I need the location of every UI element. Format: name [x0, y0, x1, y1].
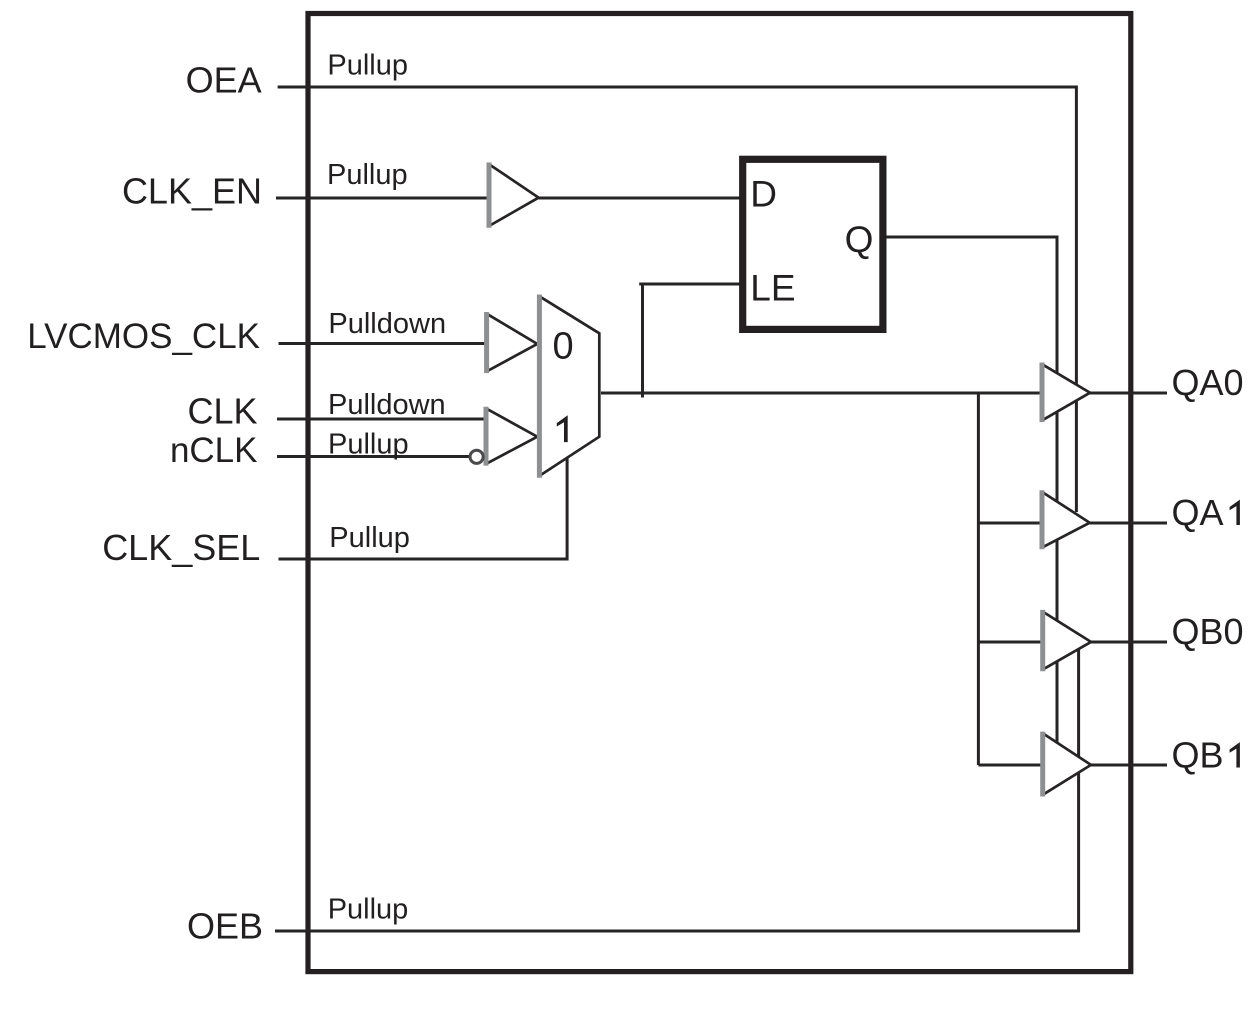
- wire LVCMOS_CLK input stub: [279, 342, 487, 345]
- wire QA1 input stub: [978, 522, 1042, 525]
- buffer CLK_EN input buffer: [489, 163, 539, 228]
- mux input label 1: [557, 415, 568, 442]
- wire latch Q net: right then down through output buffers: [883, 237, 1057, 757]
- svg-text:D: D: [750, 173, 777, 214]
- svg-text:Pulldown: Pulldown: [328, 308, 446, 340]
- wire QB0 input stub: [978, 641, 1043, 644]
- buffer LVCMOS_CLK input buffer: [487, 312, 538, 373]
- buffer QA0 output buffer: [1042, 363, 1090, 423]
- wire OEA net: stub, horizontal run, vertical drop to QA1 enable: [278, 87, 1077, 512]
- wire QA1 output: [1090, 522, 1167, 525]
- svg-text:OEA: OEA: [186, 59, 262, 100]
- buffer QB0 output buffer: [1043, 610, 1091, 671]
- wire QB1 input stub: [978, 764, 1043, 767]
- svg-text:QB: QB: [1172, 735, 1224, 776]
- svg-text:Pulldown: Pulldown: [328, 389, 446, 421]
- wire mux output main clock line to QA0: [601, 392, 1041, 395]
- wire QA0 output: [1090, 392, 1167, 395]
- buffer QB1 output buffer: [1043, 732, 1091, 797]
- svg-text:CLK_SEL: CLK_SEL: [102, 527, 260, 568]
- latch U1 (D / LE / Q): [743, 159, 883, 329]
- wire clock bus vertical: [977, 393, 980, 765]
- wire CLK_EN input stub: [276, 197, 489, 200]
- svg-text:nCLK: nCLK: [170, 431, 258, 470]
- wire CLK input stub: [277, 418, 486, 421]
- svg-text:Pullup: Pullup: [328, 429, 409, 461]
- svg-text:CLK_EN: CLK_EN: [122, 170, 262, 211]
- wire CLK_SEL net: stub and rise to mux select: [279, 458, 568, 559]
- buffer CLK/nCLK differential input buffer: [486, 407, 537, 466]
- wire OEB net: stub, horizontal run, vertical rise to QB0 enable: [275, 638, 1079, 931]
- svg-text:QB0: QB0: [1172, 611, 1244, 652]
- wire CLK_EN buffer output to latch D: [539, 197, 742, 200]
- svg-text:LE: LE: [750, 268, 795, 309]
- outer block boundary: [308, 14, 1131, 972]
- svg-text:Pullup: Pullup: [327, 50, 408, 82]
- svg-text:QA0: QA0: [1172, 362, 1244, 403]
- wire QB0 output: [1091, 641, 1167, 644]
- svg-text:0: 0: [553, 325, 574, 367]
- svg-text:CLK: CLK: [187, 391, 257, 432]
- svg-text:QA: QA: [1172, 492, 1224, 533]
- buffer QA1 output buffer: [1042, 490, 1090, 549]
- mux M1 clock select: [539, 295, 599, 478]
- svg-text:OEB: OEB: [187, 906, 263, 947]
- inversion bubble on nCLK input: [470, 450, 483, 463]
- wire LE branch from clock line up to latch LE: [639, 284, 742, 398]
- svg-text:LVCMOS_CLK: LVCMOS_CLK: [27, 317, 260, 356]
- svg-text:Q: Q: [845, 219, 874, 260]
- svg-text:Pullup: Pullup: [327, 159, 408, 191]
- svg-text:Pullup: Pullup: [328, 894, 409, 926]
- svg-text:Pullup: Pullup: [329, 522, 410, 554]
- wire QB1 output: [1091, 764, 1167, 767]
- wire nCLK input stub: [277, 455, 470, 458]
